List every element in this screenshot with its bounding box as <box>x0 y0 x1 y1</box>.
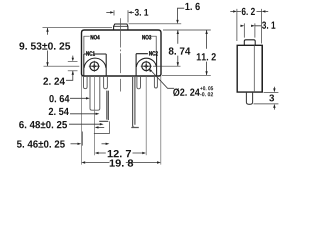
text dia2.24 <box>173 88 200 96</box>
side view body right edge thick <box>261 45 263 92</box>
left hole box <box>84 54 106 76</box>
right hole box <box>136 54 157 76</box>
left hole crosshair <box>89 61 100 72</box>
boss stub 1 <box>84 76 88 89</box>
dim 1.6 leader <box>178 8 185 20</box>
bosses and terminal pins below body <box>84 76 158 128</box>
right hole arc <box>136 58 156 67</box>
text 0.64 <box>49 95 69 102</box>
terminal pin NC1 <box>99 91 108 122</box>
extension line button top right <box>129 23 182 25</box>
text 9.53pm0.25 <box>19 42 70 49</box>
step leader from pin NC1 <box>94 121 110 133</box>
dim 0.64 arrow <box>70 97 86 99</box>
dim 5.46 leader <box>71 143 78 145</box>
text NO4 <box>91 35 100 39</box>
dim 6.48 arrow <box>69 123 100 125</box>
text 19.8 <box>110 159 133 166</box>
extension line from left hole center down (12.7) <box>93 76 95 155</box>
leader diameter 2.24 <box>151 71 174 89</box>
dim 19.8 line <box>85 162 157 164</box>
dim 3 side <box>264 91 279 93</box>
dim 11.2 vertical line <box>206 30 208 75</box>
text 6.48pm0.25 <box>19 121 67 128</box>
plunger centerline <box>119 18 121 91</box>
labels NO/NC leaders <box>84 36 156 54</box>
text 12.7 <box>108 150 131 157</box>
dim 9.53 vertical line <box>47 28 49 66</box>
extension line body bottom right <box>162 74 211 76</box>
text 3side <box>269 94 274 101</box>
leader NO4 <box>84 36 90 54</box>
text 11.2 <box>197 53 216 60</box>
left hole arc <box>84 58 106 68</box>
dim 2.24 tick lines at circle tangents <box>68 61 78 71</box>
text 1.6 <box>185 3 199 10</box>
text 8.74 <box>169 47 191 54</box>
button step line <box>114 25 128 27</box>
boss stub 3 <box>137 76 141 89</box>
side view pin <box>246 92 252 104</box>
text 3.1top <box>135 9 149 16</box>
dim 6.2 arrows <box>230 10 233 12</box>
text +0.05 <box>200 86 213 90</box>
switch body front view <box>82 30 162 76</box>
text NO3 <box>142 35 151 39</box>
text 6.2 <box>242 8 255 15</box>
side view body <box>237 45 262 92</box>
dim 2.54 arrow <box>70 113 96 115</box>
text -0.02 <box>200 92 213 96</box>
text 3.1side <box>262 21 275 28</box>
right mounting hole circle <box>142 62 151 71</box>
text 2.24 <box>43 78 65 85</box>
dim 3.1 front top arrows <box>106 11 110 13</box>
extension line from right hole center down (12.7) <box>145 76 147 155</box>
leader NO3 <box>151 36 156 53</box>
right hole crosshair <box>141 61 152 72</box>
side view button <box>244 40 255 46</box>
boss stub 2 <box>104 76 108 89</box>
boss stub 4 <box>154 76 157 88</box>
side view <box>237 40 262 105</box>
dim 8.74 vertical line <box>177 30 179 66</box>
left mounting hole circle <box>90 62 99 71</box>
dim 12.7 line <box>99 152 142 154</box>
extension line body top right <box>163 29 211 31</box>
side view inner wall line <box>253 45 255 92</box>
text 2.54 <box>49 108 69 115</box>
extension line button shoulder left <box>43 27 113 29</box>
terminal blade T1 <box>90 76 100 110</box>
text NC2 <box>149 51 158 55</box>
extension line hole center left <box>44 65 80 67</box>
arrow to ext line at 127.4 <box>98 126 104 128</box>
plunger button front view <box>114 24 128 30</box>
text NC1 <box>86 51 95 55</box>
terminal pin NC2 <box>131 76 139 128</box>
dim 2.24 arrows <box>72 56 74 58</box>
text 5.46pm0.25 <box>17 140 65 147</box>
extension line body right edge down (19.8) <box>160 76 162 165</box>
dimension lines group <box>43 8 211 164</box>
dim 3.1 side arrows and extension lines <box>239 25 242 27</box>
extension line body left edge down (19.8) <box>80 76 82 165</box>
extension line right hole center right <box>153 65 181 67</box>
